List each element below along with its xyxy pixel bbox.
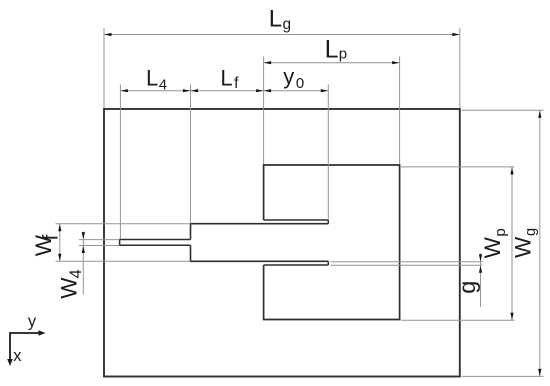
dimension Lp arrowheads xyxy=(264,61,399,64)
svg-text:y: y xyxy=(28,313,37,331)
dimension chain L4 / Lf / y0 extension lines xyxy=(120,85,328,240)
axis y arrowhead xyxy=(39,330,46,336)
dimension chain line L4-Lf-y0 xyxy=(120,90,328,92)
coordinate axes indicator xyxy=(10,333,41,361)
dimension Wf arrowheads xyxy=(58,224,61,261)
dimension g arrowheads xyxy=(479,254,482,272)
svg-text:f: f xyxy=(40,234,63,240)
ground plane outline (substrate rectangle Wg x Lg) xyxy=(104,109,460,377)
dimension Wg arrowheads xyxy=(538,111,541,377)
dimension Lp right extension line (to patch corner) xyxy=(399,57,401,165)
dimension Lp / y0 shared left extension line xyxy=(263,57,265,165)
label Wf (rotated) xyxy=(31,234,63,256)
dimension Lp line xyxy=(264,62,400,64)
label Wp (rotated) xyxy=(480,228,509,258)
dimension chain arrowheads xyxy=(121,89,328,92)
svg-text:g: g xyxy=(454,281,480,294)
svg-text:4: 4 xyxy=(67,269,85,278)
svg-text:g: g xyxy=(523,228,539,236)
label Wg (rotated) xyxy=(511,228,540,258)
dimension W4 line with outside arrows xyxy=(82,232,84,295)
dimension g line with outside arrows xyxy=(480,254,482,308)
dimension Lg line xyxy=(104,34,460,36)
dimension Wg extension lines xyxy=(462,110,544,376)
dimension Lg extension lines xyxy=(104,28,460,108)
dimension Wp extension lines xyxy=(401,167,515,320)
lower slot closed end xyxy=(327,261,329,265)
label g (rotated) xyxy=(454,281,480,294)
dimension Wg line xyxy=(539,110,541,376)
dimension Wp arrowheads xyxy=(510,167,513,320)
dimension Wf extension lines xyxy=(56,224,191,262)
feed line narrow section (width W4) xyxy=(120,240,191,246)
svg-text:W: W xyxy=(56,277,81,299)
label W4 (rotated) xyxy=(56,269,85,298)
svg-text:p: p xyxy=(492,228,509,236)
notch bottom edge of patch xyxy=(264,264,329,266)
dimension Wf line xyxy=(59,224,61,262)
notch top edge of patch xyxy=(264,219,329,221)
upper slot closed end xyxy=(327,220,329,224)
svg-text:W: W xyxy=(511,236,536,258)
dimension W4 arrowheads xyxy=(82,232,85,253)
dimension Wp line xyxy=(511,167,513,320)
dimension W4 extension lines xyxy=(79,240,120,246)
axis x arrowhead xyxy=(7,359,13,366)
svg-text:W: W xyxy=(480,236,505,258)
patch outline (Wp x Lp with inset notch) xyxy=(264,165,400,320)
dimension Lg arrowheads xyxy=(104,33,459,36)
dimension g extension lines xyxy=(331,262,483,266)
svg-text:x: x xyxy=(13,347,22,365)
feed line wide section (width Wf) xyxy=(191,224,329,262)
